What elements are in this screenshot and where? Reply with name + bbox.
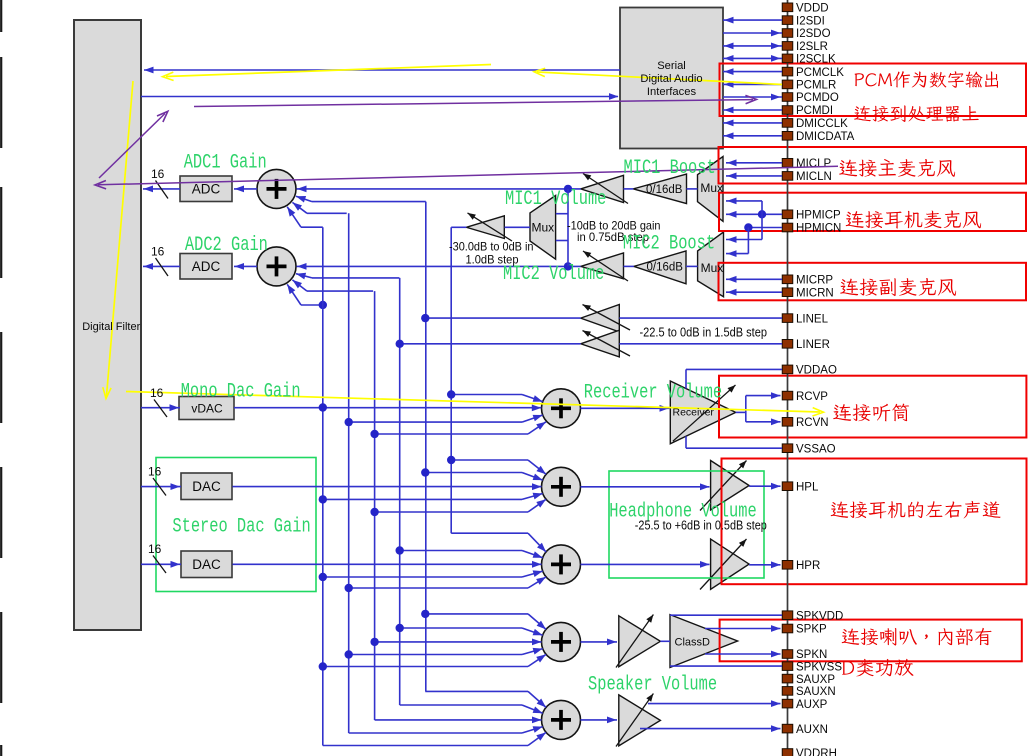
node: MIC1 line to record mux — [564, 185, 572, 193]
pin SPKN — [782, 650, 793, 659]
yellow annotation arrow YD (through filter down to vDAC) — [107, 81, 134, 396]
wire: SPKVSS supply to ClassD — [670, 665, 782, 667]
chip boundary line — [787, 0, 789, 756]
wire: HPR mixer input from bus V6 — [451, 532, 528, 534]
svg-text:DAC: DAC — [192, 479, 221, 494]
amp A11: speaker volume PGA — [619, 616, 661, 667]
wire I2SDO — [723, 32, 782, 34]
pin LINEL — [782, 314, 793, 323]
wire: ADC2 mixer to ADC2 — [234, 265, 257, 267]
amp A9: HPL volume amplifier — [711, 461, 750, 511]
wire: HPL mixer to HPL amp — [581, 486, 710, 488]
red callout box: speaker pins — [720, 620, 1022, 662]
wire: filter to DAC right — [141, 563, 181, 565]
pin SPKVDD — [782, 611, 793, 620]
wire: ADC1 mixer input from bus V2 — [307, 212, 347, 214]
bus-width slash vDAC — [154, 400, 167, 418]
wire I2SDI — [723, 19, 782, 21]
wire: HPR amp to HPR pin — [749, 564, 780, 566]
pin HPMICP — [782, 210, 793, 219]
pin MICLP — [782, 159, 793, 168]
green box: Stereo Dac Gain group — [156, 458, 316, 592]
wire: speaker mixer input from bus V4 — [400, 627, 522, 629]
svg-text:SAUXN: SAUXN — [796, 686, 836, 698]
wire: boost A1 to PGA A3 — [624, 188, 634, 190]
pin I2SLR — [782, 42, 793, 51]
pin HPL — [782, 482, 793, 491]
wire: speaker mixer input from bus V5 — [425, 613, 528, 615]
wire: HPR mixer input from bus V2 — [349, 587, 528, 589]
pin PCMCLK — [782, 67, 793, 76]
svg-text:AUXP: AUXP — [796, 699, 828, 711]
wire PCMDI — [723, 109, 782, 111]
pin PCMLR — [782, 80, 793, 89]
summing node: speaker output mixer — [542, 622, 581, 661]
summing node: HPL output mixer — [542, 467, 581, 506]
wire: record mux input lower — [556, 240, 568, 242]
wire PCMLR — [723, 83, 782, 85]
bus-width slash ADC1 — [156, 181, 169, 199]
summing node: HPR output mixer — [542, 545, 581, 584]
pin I2SDI — [782, 16, 793, 25]
pin VSSAO — [782, 444, 793, 453]
ADC block U2 (ADC2) — [180, 254, 232, 280]
wire: PGA A13 to AUXN pin — [640, 728, 781, 730]
wire: aux mixer input from bus V4 — [400, 704, 522, 706]
bus-width slash ADC2 — [156, 258, 169, 276]
svg-text:ADC2 Gain: ADC2 Gain — [185, 234, 268, 257]
wire: receiver mixer to receiver amp — [581, 407, 671, 409]
pin HPMICN — [782, 223, 793, 232]
amp A7: LINER input PGA — [581, 330, 620, 357]
pin SPKP — [782, 624, 793, 633]
svg-text:ADC: ADC — [192, 182, 221, 197]
wire: DAC right output to HPR mixer — [233, 563, 542, 565]
svg-text:Mux: Mux — [701, 261, 724, 275]
amp A6: LINEL input PGA — [581, 305, 620, 332]
wire HPMICP to mux U6 — [726, 213, 782, 215]
wire: speaker mixer input from bus V1 — [323, 666, 528, 668]
node: LINEL joins bus V5 — [421, 314, 429, 322]
bus wire V4 — [399, 278, 401, 705]
red callout box: PCM pins — [720, 64, 1027, 117]
wire: HPR mixer to HPR amp — [581, 563, 710, 565]
red callout box: receiver pins — [719, 376, 1026, 438]
node: HPMICN branch — [744, 223, 752, 231]
wire MICRP to mux U7 — [726, 278, 782, 280]
DAC block U5 (DAC right) — [181, 551, 232, 578]
svg-text:VSSAO: VSSAO — [796, 443, 836, 455]
svg-text:HPMICP: HPMICP — [796, 210, 841, 222]
svg-text:HPR: HPR — [796, 560, 820, 572]
pin SAUXP — [782, 674, 793, 683]
wire MICLN to mux U6 — [726, 175, 782, 177]
purple annotation arrow A (filter to PCMDO) — [194, 100, 753, 107]
wire: HPR mixer input from bus V4 — [400, 550, 522, 552]
svg-text:PCMLR: PCMLR — [796, 80, 836, 92]
pin VDDAO — [782, 365, 793, 374]
svg-text:MICLP: MICLP — [796, 158, 831, 170]
wire: record mux select vertical — [567, 189, 569, 267]
svg-text:LINER: LINER — [796, 339, 830, 351]
svg-text:Digital Audio: Digital Audio — [640, 73, 702, 85]
wire: VSSAO supply to receiver amp — [686, 447, 782, 449]
pin PCMDI — [782, 106, 793, 115]
svg-text:SPKVSS: SPKVSS — [796, 661, 842, 673]
svg-text:SPKP: SPKP — [796, 624, 827, 636]
wire: HPL amp to HPL pin — [749, 485, 780, 487]
svg-text:0/16dB: 0/16dB — [646, 184, 683, 196]
svg-text:Mono Dac Gain: Mono Dac Gain — [181, 380, 301, 403]
svg-text:16: 16 — [151, 245, 165, 259]
wire DMICDATA — [723, 135, 782, 137]
svg-text:ADC: ADC — [192, 259, 221, 274]
wire: HPMICN branch vertical — [747, 228, 749, 254]
DAC block U4 (DAC left) — [181, 473, 232, 500]
svg-text:Headphone Volume: Headphone Volume — [609, 500, 757, 523]
red callout box: second mic pins — [719, 263, 1027, 301]
wire PCMCLK — [723, 71, 782, 73]
wire: ADC2 mixer input from bus V4 — [312, 277, 399, 279]
bus wire V5 — [425, 202, 427, 692]
page left edge marks — [0, 0, 2, 32]
wire: DAC left output to HPL mixer — [233, 486, 542, 488]
pin DMICCLK — [782, 119, 793, 128]
wire MICLP to mux U6 — [726, 162, 782, 164]
wire: LINEL PGA output to bus V5 — [425, 317, 580, 319]
pin I2SCLK — [782, 54, 793, 63]
amp A10: HPR volume amplifier — [711, 539, 750, 589]
wire: receiver mixer input from bus V3 — [375, 433, 528, 435]
svg-text:I2SDI: I2SDI — [796, 15, 825, 27]
svg-text:MIC1 Volume: MIC1 Volume — [505, 188, 606, 211]
wire: mux U6 to boost A1 — [687, 188, 698, 190]
wire: ADC2 output to digital filter — [143, 265, 180, 267]
green box: Headphone Volume group — [609, 471, 764, 578]
mux U6 (MIC1 input mux) — [698, 157, 724, 222]
svg-text:DMICCLK: DMICCLK — [796, 118, 848, 130]
wire: filter to vDAC — [141, 407, 180, 409]
wire: HPL mixer input from bus V1 — [323, 498, 522, 500]
wire: HPL mixer input from bus V5 — [425, 472, 522, 474]
wire MICRN to mux U7 — [726, 291, 782, 293]
svg-text:HPMICN: HPMICN — [796, 223, 841, 235]
wire: speaker mixer input from bus V2 — [349, 654, 522, 656]
svg-text:Speaker Volume: Speaker Volume — [588, 674, 717, 697]
amp A3: MIC1 volume PGA — [581, 175, 624, 202]
svg-text:Mux: Mux — [700, 181, 723, 195]
node: MIC2 line to record mux — [564, 262, 572, 270]
svg-text:vDAC: vDAC — [191, 402, 223, 416]
summing node: ADC1 record mixer — [257, 169, 296, 208]
summing node: aux output mixer — [542, 700, 581, 739]
svg-text:MICRN: MICRN — [796, 287, 834, 299]
yellow annotation arrow Y1 (to digital filter) — [166, 65, 491, 77]
svg-text:Digital Filter: Digital Filter — [82, 321, 140, 333]
svg-text:DMICDATA: DMICDATA — [796, 131, 855, 143]
summing node: receiver output mixer — [542, 389, 581, 428]
svg-text:ClassD: ClassD — [675, 637, 711, 649]
svg-text:Stereo Dac Gain: Stereo Dac Gain — [172, 515, 310, 538]
pin LINER — [782, 340, 793, 349]
svg-text:RCVP: RCVP — [796, 391, 828, 403]
digital filter block — [74, 20, 141, 630]
pin AUXP — [782, 699, 793, 708]
svg-text:16: 16 — [150, 386, 164, 400]
svg-text:SPKVDD: SPKVDD — [796, 610, 843, 622]
wire: ADC1 mixer input from bus V5 — [312, 201, 426, 203]
pin MICLN — [782, 172, 793, 181]
wire: HPMICP branch vertical — [761, 201, 763, 240]
svg-text:VDDAO: VDDAO — [796, 365, 837, 377]
wire: ADC2 mixer input from bus V1 — [301, 304, 323, 306]
wire: receiver amp output — [736, 411, 746, 413]
svg-text:I2SDO: I2SDO — [796, 28, 831, 40]
bus wire V3 — [374, 291, 376, 720]
wire: digital filter to serial block (upper) — [144, 69, 620, 71]
wire: ADC1 mixer input from bus V1 — [301, 226, 323, 228]
bus-width slash DAC right — [153, 556, 166, 574]
pin RCVN — [782, 418, 793, 427]
svg-text:Interfaces: Interfaces — [647, 86, 697, 98]
node: HPMICP branch — [758, 210, 766, 218]
svg-text:SAUXP: SAUXP — [796, 674, 835, 686]
vDAC block U3 — [179, 397, 234, 420]
wire: MIC1 PGA output to ADC1 mixer — [297, 188, 581, 190]
svg-text:16: 16 — [151, 167, 165, 181]
pin HPR — [782, 561, 793, 570]
wire: mux U7 to boost A2 — [686, 265, 698, 267]
wire I2SCLK — [723, 57, 782, 59]
svg-text:MIC1 Boost: MIC1 Boost — [624, 157, 716, 180]
svg-text:AUXN: AUXN — [796, 724, 828, 736]
amp A13: aux volume PGA — [619, 695, 661, 746]
wire: receiver output split vertical — [745, 396, 747, 422]
wire: aux mixer input from bus V1 — [323, 745, 528, 747]
pin PCMDO — [782, 93, 793, 102]
bus-width slash DAC left — [153, 478, 166, 496]
svg-text:16: 16 — [148, 542, 162, 556]
wire: filter to DAC left — [141, 486, 181, 488]
pin VDDD — [782, 3, 793, 12]
wire: to RCVP pin — [746, 395, 781, 397]
yellow annotation arrow Y2 (PCMLR to filter) — [537, 72, 782, 85]
wire: speaker mixer input from bus V3 — [375, 641, 542, 643]
wire: VDDAO supply to receiver amp — [686, 368, 782, 370]
wire: mux U8 to -30dB PGA A5 — [505, 226, 531, 228]
wire: PGA A13 to AUXP pin — [648, 703, 781, 705]
svg-text:-30.0dB to 0dB in: -30.0dB to 0dB in — [449, 239, 534, 253]
wire: aux mixer input from bus V2 — [349, 732, 522, 734]
svg-text:PCMDI: PCMDI — [796, 105, 833, 117]
wire: ADC1 output to digital filter — [143, 188, 180, 190]
amp A8: receiver amplifier — [670, 381, 735, 444]
amp A12: ClassD speaker amplifier — [670, 615, 738, 668]
ADC block U1 (ADC1) — [180, 176, 232, 202]
amp A4: MIC2 volume PGA — [581, 253, 624, 279]
wire HPMICN — [748, 227, 782, 229]
svg-text:Receiver Volume: Receiver Volume — [584, 381, 722, 404]
wire: HPMICP lower branch to mux U7 — [726, 239, 762, 241]
red callout box: headphone pins — [722, 459, 1027, 585]
wire: to RCVN pin — [746, 421, 781, 423]
red annotation text: PCM as digital output / connect to processor / mic and output notes — [831, 71, 1001, 676]
wire: LINER PGA output to bus V4 — [400, 343, 581, 345]
wire: ADC1 mixer to ADC1 — [234, 188, 257, 190]
svg-text:VDDD: VDDD — [796, 3, 829, 15]
wire DMICCLK — [723, 122, 782, 124]
purple annotation arrow B (MICLN to filter) — [98, 166, 838, 185]
mux U8 (record source mux) — [530, 196, 556, 260]
wire PCMDO — [723, 96, 782, 98]
svg-text:SPKN: SPKN — [796, 649, 827, 661]
wire: HPL mixer input from bus V3 — [375, 511, 528, 513]
svg-text:Serial: Serial — [657, 60, 686, 72]
svg-text:LINEL: LINEL — [796, 313, 829, 325]
svg-text:16: 16 — [148, 465, 162, 479]
wire: aux mixer input from bus V3 — [375, 719, 542, 721]
bus wire V6 (-30dB PGA output) — [450, 227, 452, 533]
pin VDDRH — [782, 749, 793, 756]
wire: LINER pin to PGA A7 — [619, 343, 782, 345]
wire: HPR mixer input from bus V1 — [323, 576, 522, 578]
serial digital audio interfaces block — [620, 8, 723, 149]
amp A5: HPMIC -30dB PGA — [466, 216, 504, 239]
wire: ADC2 mixer input from bus V3 — [307, 290, 373, 292]
amp A2: MIC2 boost 0/16dB — [634, 251, 686, 284]
mux U7 (MIC2 input mux) — [698, 232, 724, 297]
wire: aux mixer input from bus V5 — [425, 690, 528, 692]
pin I2SDO — [782, 29, 793, 38]
svg-text:DAC: DAC — [192, 557, 221, 572]
svg-text:MICRP: MICRP — [796, 275, 833, 287]
wire: ClassD to SPKP pin — [705, 628, 781, 630]
yellow annotation arrow YC (vDAC path to RCVP) — [126, 392, 820, 413]
amp A1: MIC1 boost 0/16dB — [633, 174, 686, 204]
wire: vDAC output to receiver mixer — [234, 407, 541, 409]
wire I2SLR — [723, 45, 782, 47]
pin RCVP — [782, 391, 793, 400]
wire: PGA A11 to ClassD amp — [660, 640, 670, 642]
svg-text:Receiver: Receiver — [673, 406, 715, 418]
wire: LINEL pin to PGA A6 — [619, 317, 782, 319]
svg-text:VDDRH: VDDRH — [796, 748, 837, 756]
wire: aux mixer to PGA A13 — [581, 719, 618, 721]
pin DMICDATA — [782, 132, 793, 141]
svg-text:I2SLR: I2SLR — [796, 41, 828, 53]
wire: receiver mixer input from bus V2 — [349, 421, 522, 423]
bus wire V2 — [348, 213, 350, 733]
pin SAUXN — [782, 687, 793, 696]
svg-text:ADC1 Gain: ADC1 Gain — [184, 152, 267, 175]
wire: HPL mixer input from bus V6 — [451, 459, 528, 461]
svg-text:MIC2 Boost: MIC2 Boost — [623, 233, 715, 256]
red callout box: main mic pins — [719, 147, 1027, 184]
svg-text:Mux: Mux — [532, 221, 555, 235]
summing node: ADC2 record mixer — [257, 247, 296, 286]
svg-text:HPL: HPL — [796, 481, 819, 493]
pin MICRP — [782, 275, 793, 284]
wire: speaker mixer to PGA A11 — [581, 641, 618, 643]
wire: -30dB PGA output — [451, 226, 466, 228]
pin SPKVSS — [782, 662, 793, 671]
node: bus V1 tap to ADC2 — [319, 301, 327, 309]
wire: MIC2 PGA output to ADC2 mixer — [297, 265, 581, 267]
wire: ClassD to SPKN pin — [705, 653, 781, 655]
svg-text:-22.5 to 0dB in 1.5dB step: -22.5 to 0dB in 1.5dB step — [640, 326, 768, 340]
bus wire V1 — [322, 227, 324, 745]
wire: boost A2 to PGA A4 — [624, 265, 634, 267]
node: vDAC joins bus V1 — [319, 403, 327, 411]
wire: HPMICN branch to mux U7 — [726, 253, 748, 255]
pin MICRN — [782, 288, 793, 297]
svg-text:RCVN: RCVN — [796, 417, 829, 429]
svg-text:I2SCLK: I2SCLK — [796, 54, 836, 66]
node: LINER joins bus V4 — [396, 340, 404, 348]
red callout box: headset mic pins — [719, 193, 1026, 231]
svg-text:PCMDO: PCMDO — [796, 92, 839, 104]
svg-text:PCMCLK: PCMCLK — [796, 67, 844, 79]
svg-text:MICLN: MICLN — [796, 171, 832, 183]
pin AUXN — [782, 724, 793, 733]
svg-text:MIC2 Volume: MIC2 Volume — [503, 263, 604, 286]
wire: record mux input upper — [556, 213, 568, 215]
wire: receiver mixer input from bus V6 — [451, 394, 522, 396]
wire: SPKVDD supply to ClassD — [670, 614, 782, 616]
svg-text:0/16dB: 0/16dB — [647, 262, 684, 274]
wire: HPMICP upper branch to mux U6 — [726, 200, 762, 202]
wire: digital filter to serial block (lower) — [141, 96, 618, 98]
purple annotation arrow D (branch up-right) — [99, 114, 165, 179]
